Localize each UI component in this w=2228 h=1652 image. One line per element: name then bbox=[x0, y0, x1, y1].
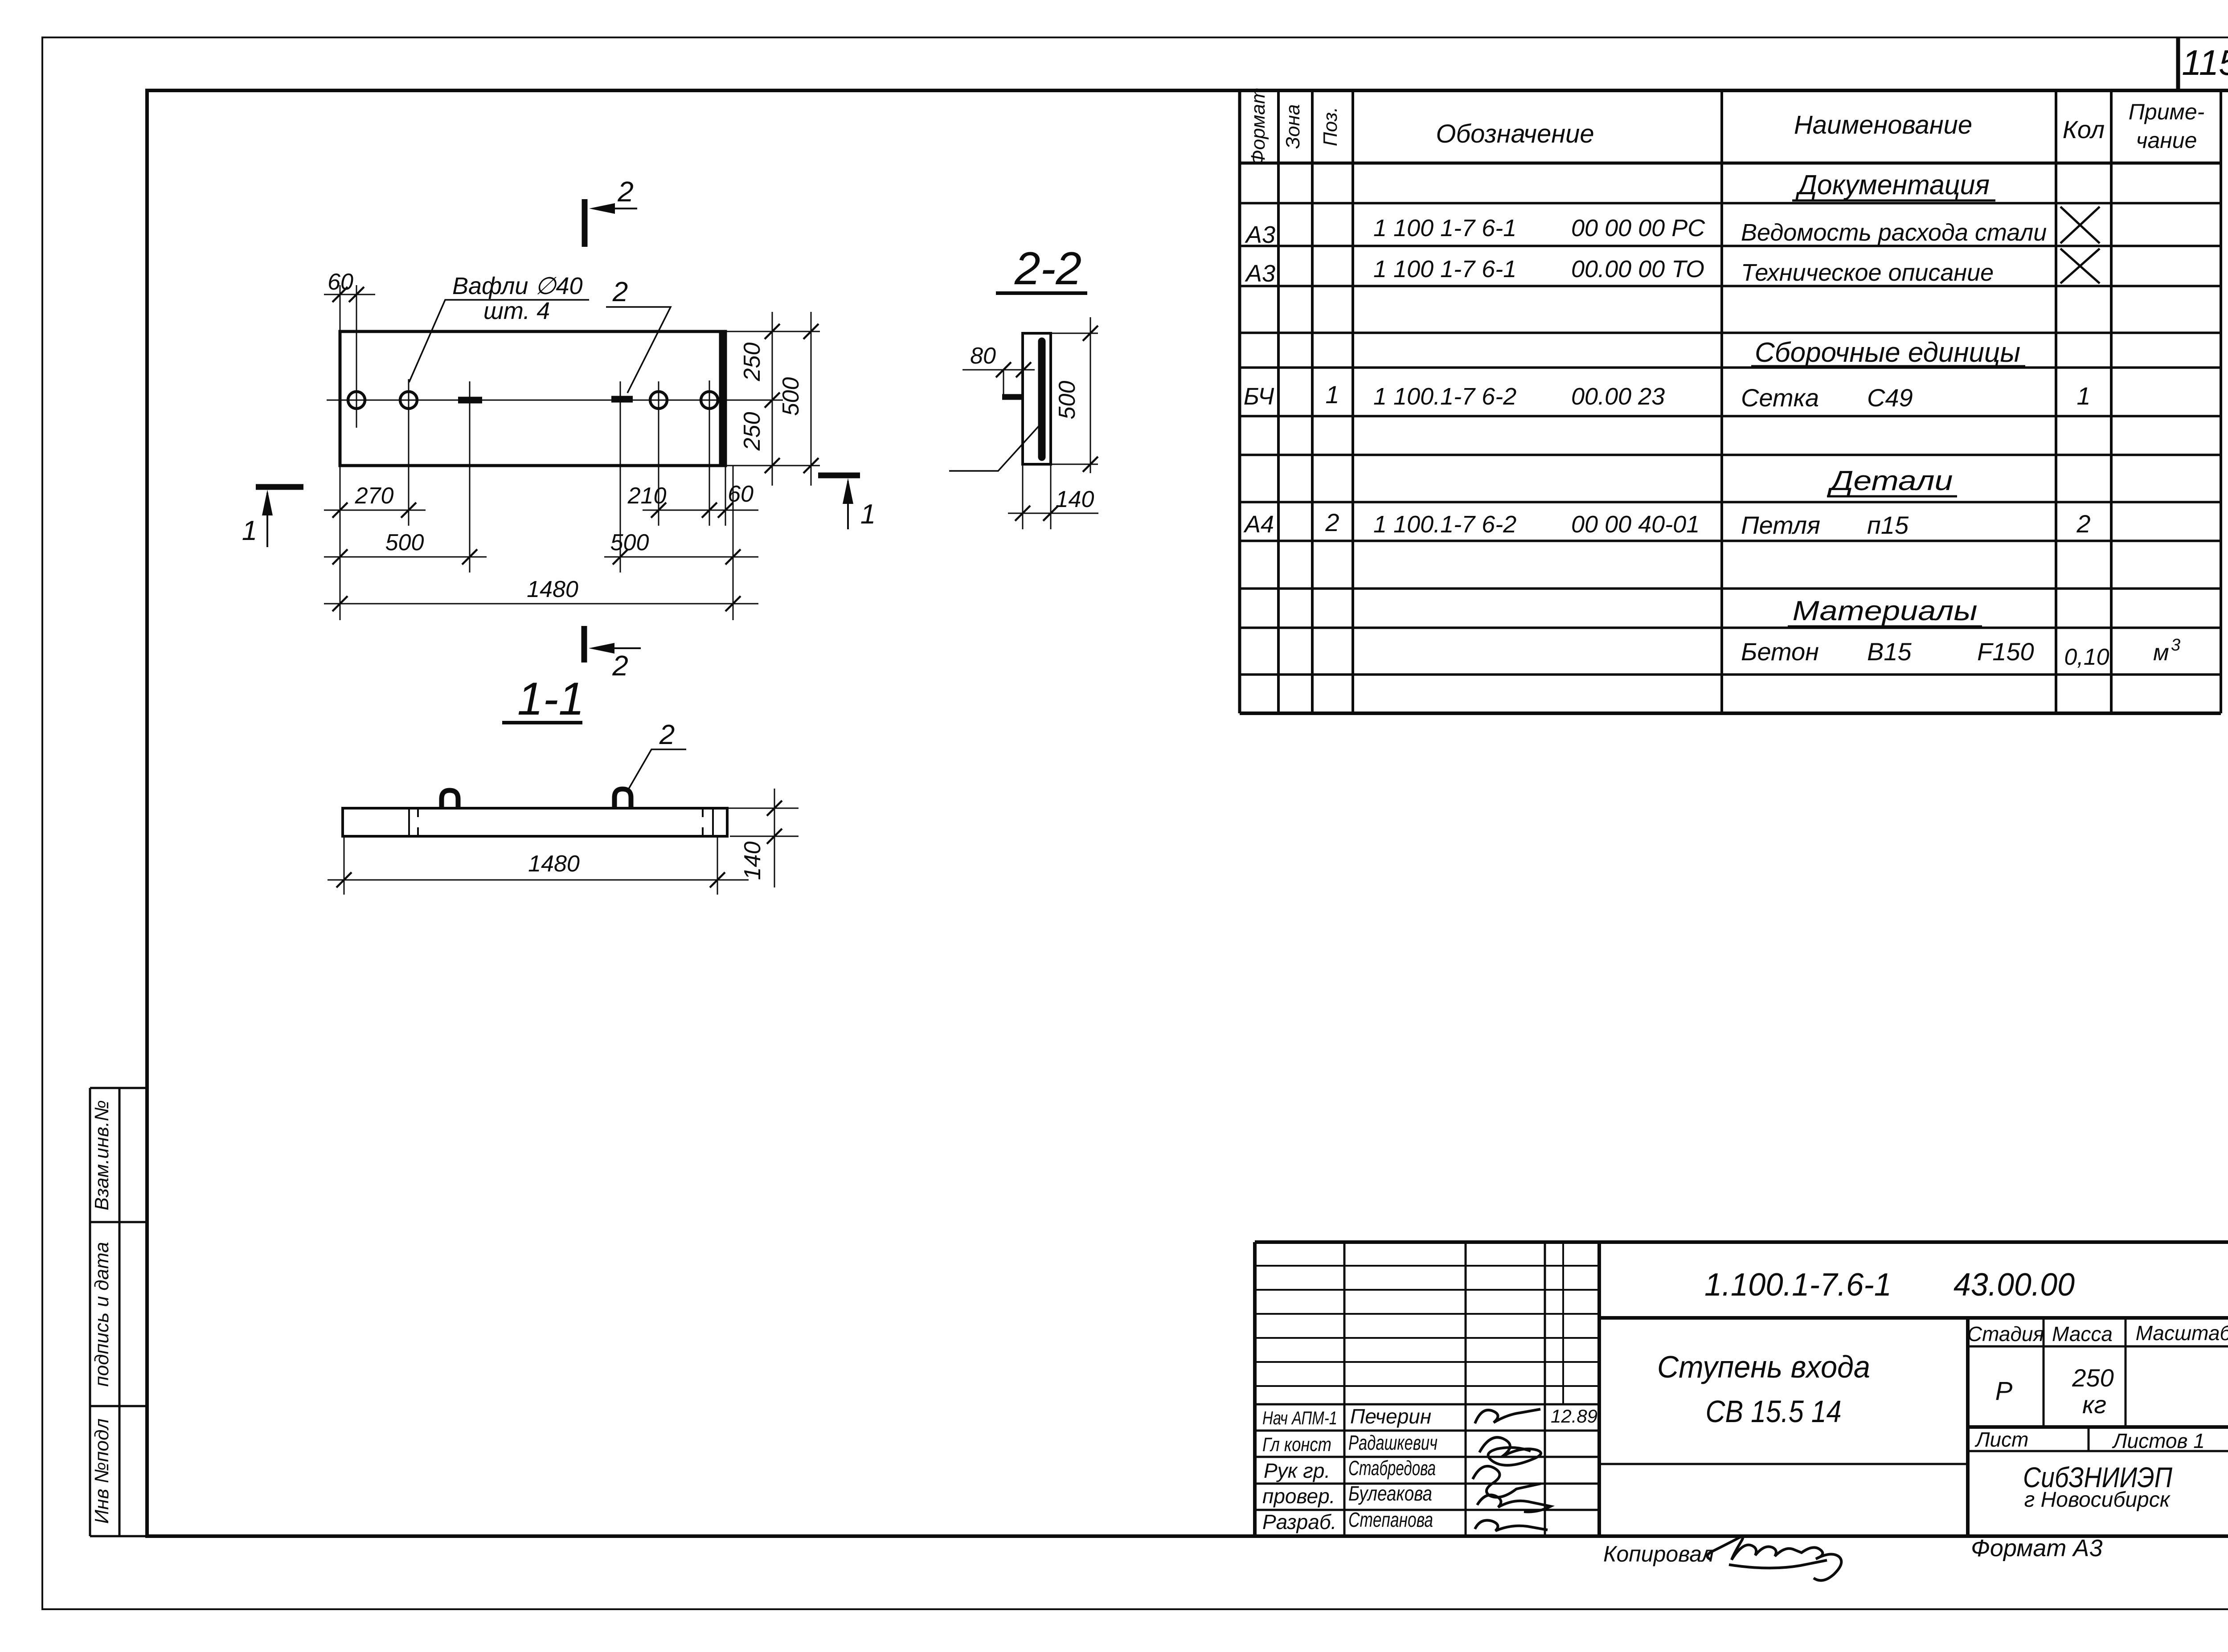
svg-text:Поз.: Поз. bbox=[1319, 107, 1341, 147]
section 2-2 outline bbox=[1023, 333, 1051, 464]
svg-text:Ступень входа: Ступень входа bbox=[1657, 1349, 1870, 1384]
svg-text:Радашкевич: Радашкевич bbox=[1348, 1431, 1438, 1454]
svg-text:12.89: 12.89 bbox=[1551, 1406, 1597, 1427]
section 1-1 outline bbox=[343, 808, 727, 836]
horizontal centerline bbox=[327, 400, 783, 401]
svg-text:Нач АПМ-1: Нач АПМ-1 bbox=[1262, 1407, 1337, 1428]
hole 2 bbox=[400, 392, 417, 409]
copier signature bbox=[1708, 1537, 1842, 1580]
svg-text:шт. 4: шт. 4 bbox=[483, 298, 550, 324]
svg-text:Вафли ∅40: Вафли ∅40 bbox=[452, 273, 583, 299]
svg-text:2-2: 2-2 bbox=[1014, 243, 1081, 294]
svg-text:1.100.1-7.6-1: 1.100.1-7.6-1 bbox=[1704, 1267, 1892, 1303]
svg-text:Формат: Формат bbox=[1247, 88, 1269, 166]
svg-text:250: 250 bbox=[739, 343, 765, 382]
PLAN VIEW bbox=[242, 176, 876, 682]
svg-text:1 100.1-7 6-2: 1 100.1-7 6-2 bbox=[1373, 511, 1516, 538]
svg-text:270: 270 bbox=[355, 483, 394, 509]
dimension 250/250 (vertical) bbox=[772, 312, 773, 486]
dimension 140 bbox=[1008, 513, 1098, 514]
svg-text:Инв №подл: Инв №подл bbox=[91, 1419, 113, 1524]
leader: pos 2 (plan) bbox=[606, 307, 671, 393]
svg-text:3: 3 bbox=[2171, 636, 2180, 654]
svg-text:500: 500 bbox=[385, 530, 424, 556]
page number box bbox=[2176, 37, 2180, 90]
svg-text:г Новосибирск: г Новосибирск bbox=[2024, 1488, 2171, 1512]
svg-text:00.00 23: 00.00 23 bbox=[1571, 383, 1665, 410]
svg-text:С49: С49 bbox=[1867, 384, 1913, 412]
svg-text:43.00.00: 43.00.00 bbox=[1954, 1267, 2075, 1303]
svg-text:чание: чание bbox=[2136, 128, 2197, 153]
svg-text:Стадия: Стадия bbox=[1967, 1322, 2044, 1345]
spec table verticals bbox=[1238, 90, 1241, 713]
witness lines 500 bbox=[1051, 333, 1098, 334]
svg-text:2: 2 bbox=[1325, 508, 1339, 536]
svg-text:кг: кг bbox=[2082, 1390, 2106, 1419]
svg-text:2: 2 bbox=[2076, 510, 2090, 538]
svg-text:Булеакова: Булеакова bbox=[1348, 1482, 1432, 1505]
dimension 80 bbox=[962, 369, 1035, 371]
upper thin rows bbox=[1255, 1266, 1599, 1386]
svg-text:140: 140 bbox=[1056, 487, 1094, 512]
loop 2 (plan, right) bbox=[611, 396, 633, 403]
svg-text:1: 1 bbox=[242, 515, 257, 546]
svg-text:500: 500 bbox=[610, 530, 649, 556]
lifting loop right bbox=[614, 789, 631, 808]
svg-text:0,10: 0,10 bbox=[2064, 644, 2109, 670]
title block outline bbox=[1253, 1242, 1257, 1536]
svg-text:подпись и дата: подпись и дата bbox=[91, 1242, 113, 1386]
svg-text:Лист: Лист bbox=[1974, 1428, 2028, 1451]
spec table bottom bbox=[1240, 712, 2221, 715]
svg-text:Разраб.: Разраб. bbox=[1262, 1510, 1336, 1533]
signature row lines bbox=[1255, 1431, 1599, 1510]
svg-text:м: м bbox=[2153, 640, 2169, 666]
leader to mesh bbox=[949, 423, 1041, 471]
stadia/massa/masshtab header bbox=[1968, 1345, 2228, 1348]
loop 2 (plan, left) bbox=[458, 397, 482, 404]
dimension 270 bbox=[324, 510, 426, 511]
svg-text:115: 115 bbox=[2182, 43, 2228, 82]
section mark 2 (bottom) bbox=[582, 626, 587, 662]
svg-text:Зона: Зона bbox=[1282, 104, 1304, 149]
FOOTER bbox=[1603, 1535, 2102, 1580]
spec table header bottom bbox=[1240, 162, 2221, 165]
svg-text:Листов 1: Листов 1 bbox=[2112, 1429, 2205, 1452]
hole 1 bbox=[348, 392, 365, 409]
svg-text:1 100 1-7 6-1: 1 100 1-7 6-1 bbox=[1373, 256, 1516, 282]
name/stamp divider bbox=[1966, 1318, 1970, 1536]
svg-text:140: 140 bbox=[740, 842, 766, 880]
left label boxes bbox=[90, 1088, 147, 1536]
svg-text:Формат А3: Формат А3 bbox=[1971, 1535, 2102, 1562]
svg-text:1 100 1-7 6-1: 1 100 1-7 6-1 bbox=[1373, 215, 1516, 241]
svg-text:80: 80 bbox=[970, 343, 996, 369]
svg-text:Копировал: Копировал bbox=[1603, 1542, 1714, 1566]
TITLE BLOCK bbox=[1255, 1242, 2228, 1536]
hole 4 bbox=[701, 392, 718, 409]
svg-text:Масса: Масса bbox=[2052, 1322, 2113, 1345]
svg-text:F150: F150 bbox=[1977, 638, 2034, 666]
SECTION 2-2 bbox=[949, 243, 1098, 529]
svg-text:А4: А4 bbox=[1243, 511, 1274, 538]
svg-text:Детали: Детали bbox=[1827, 466, 1953, 496]
svg-text:Рук гр.: Рук гр. bbox=[1264, 1459, 1330, 1482]
dimension 60 (top-left) bbox=[324, 294, 375, 295]
svg-text:Сборочные единицы: Сборочные единицы bbox=[1755, 337, 2020, 368]
svg-text:2: 2 bbox=[612, 277, 628, 307]
section mark 1 (right) bbox=[818, 473, 860, 478]
hole 3 bbox=[650, 392, 667, 409]
loop hook (protruding) bbox=[1003, 370, 1004, 395]
svg-text:Материалы: Материалы bbox=[1793, 596, 1978, 626]
section mark 1 (left) bbox=[256, 484, 303, 490]
svg-text:Техническое описание: Техническое описание bbox=[1741, 259, 1994, 286]
dimension 500 (vertical) bbox=[811, 312, 812, 486]
dimension 1480 bbox=[324, 603, 758, 605]
plate outline (plan) bbox=[340, 331, 725, 466]
svg-text:00.00 00 ТО: 00.00 00 ТО bbox=[1571, 256, 1704, 282]
dimension 500 (right) bbox=[604, 556, 758, 558]
svg-text:500: 500 bbox=[778, 377, 804, 416]
name cell bottom line bbox=[1599, 1463, 1968, 1465]
svg-text:СВ 15.5 14: СВ 15.5 14 bbox=[1706, 1394, 1842, 1429]
svg-text:1480: 1480 bbox=[528, 851, 580, 877]
svg-text:500: 500 bbox=[1054, 381, 1080, 420]
svg-text:В15: В15 bbox=[1867, 638, 1912, 666]
dimension 500 (vertical) bbox=[1090, 317, 1091, 473]
svg-text:1: 1 bbox=[2076, 382, 2090, 410]
witness lines 140 (1-1) bbox=[727, 808, 799, 809]
mesh C49 (thick bar) bbox=[1038, 341, 1046, 457]
svg-text:2: 2 bbox=[612, 650, 628, 682]
svg-text:Гл конст: Гл конст bbox=[1262, 1434, 1331, 1456]
TABLE: specification bbox=[1240, 90, 2221, 713]
svg-text:Бетон: Бетон bbox=[1741, 638, 1819, 666]
svg-text:Ведомость расхода стали: Ведомость расхода стали bbox=[1741, 219, 2047, 246]
section mark 2 (top) bbox=[582, 199, 588, 247]
svg-text:1: 1 bbox=[860, 499, 876, 530]
LEFT MARGIN LABELS bbox=[90, 1088, 147, 1536]
svg-text:А3: А3 bbox=[1245, 221, 1275, 248]
dimension 1480 (1-1) bbox=[328, 879, 749, 881]
joint line left bbox=[408, 808, 410, 836]
svg-text:1 100.1-7 6-2: 1 100.1-7 6-2 bbox=[1373, 383, 1516, 410]
dimension 210 and 60 (right) bbox=[643, 510, 758, 511]
witness lines 1480 bbox=[344, 836, 345, 895]
svg-text:Кол: Кол bbox=[2063, 115, 2105, 143]
svg-text:60: 60 bbox=[728, 481, 754, 507]
hidden dashes left bbox=[417, 808, 419, 817]
leader pos 2 (1-1) bbox=[628, 749, 686, 789]
svg-text:1480: 1480 bbox=[527, 577, 578, 602]
svg-text:Сетка: Сетка bbox=[1741, 384, 1819, 412]
witness lines bbox=[340, 285, 733, 620]
witness lines 140 bbox=[1022, 464, 1024, 529]
SECTION 1-1 bbox=[328, 673, 799, 895]
list row bbox=[1968, 1425, 2228, 1429]
svg-text:250: 250 bbox=[739, 412, 765, 451]
leader: Вафли d40 шт.4 bbox=[409, 300, 589, 382]
svg-text:Стабредова: Стабредова bbox=[1348, 1456, 1436, 1480]
doc number cell bbox=[1599, 1316, 2228, 1320]
svg-text:Взам.инв.№: Взам.инв.№ bbox=[91, 1100, 113, 1210]
svg-text:2: 2 bbox=[617, 176, 634, 208]
dimension 140 (1-1) bbox=[774, 789, 775, 887]
lifting loop left bbox=[442, 790, 458, 808]
svg-text:Наименование: Наименование bbox=[1794, 110, 1972, 139]
dimension 500 (left) bbox=[324, 556, 487, 558]
svg-text:Степанова: Степанова bbox=[1348, 1508, 1433, 1531]
svg-text:250: 250 bbox=[2072, 1364, 2113, 1392]
svg-text:Документация: Документация bbox=[1795, 170, 1990, 200]
svg-text:2: 2 bbox=[659, 720, 675, 750]
svg-text:Приме-: Приме- bbox=[2129, 99, 2205, 124]
svg-text:А3: А3 bbox=[1245, 260, 1275, 287]
title block verticals (left part) bbox=[1343, 1242, 1346, 1536]
svg-text:БЧ: БЧ bbox=[1244, 383, 1274, 410]
svg-text:Р: Р bbox=[1995, 1377, 2013, 1406]
svg-text:00 00 40-01: 00 00 40-01 bbox=[1571, 511, 1700, 538]
joint line right bbox=[712, 808, 714, 836]
signature scribbles bbox=[1475, 1409, 1540, 1423]
svg-text:1-1: 1-1 bbox=[517, 673, 584, 725]
witness extensions right side bbox=[725, 331, 820, 466]
svg-text:Печерин: Печерин bbox=[1350, 1405, 1431, 1428]
thick step edge (plan right end) bbox=[719, 331, 725, 466]
svg-text:Обозначение: Обозначение bbox=[1436, 119, 1594, 148]
svg-text:п15: п15 bbox=[1867, 511, 1909, 539]
svg-text:00 00 00 РС: 00 00 00 РС bbox=[1571, 215, 1705, 241]
svg-text:1: 1 bbox=[1325, 380, 1339, 409]
svg-text:Масштаб: Масштаб bbox=[2136, 1321, 2228, 1345]
spec table row lines bbox=[1240, 203, 2221, 675]
svg-text:Петля: Петля bbox=[1741, 511, 1820, 539]
svg-text:210: 210 bbox=[627, 483, 667, 509]
hidden dashes right bbox=[702, 808, 704, 817]
svg-text:провер.: провер. bbox=[1262, 1484, 1335, 1508]
svg-text:60: 60 bbox=[328, 269, 353, 295]
